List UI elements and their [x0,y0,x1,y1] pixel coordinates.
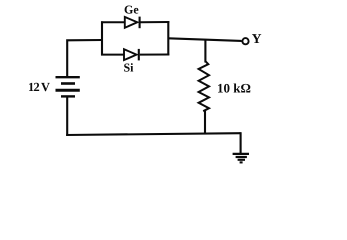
wire: diode block left vertical [101,21,103,55]
wire: resistor bottom lead to bottom rail [204,110,206,135]
wire: ground drop from bottom rail [240,132,242,153]
svg-text:Si: Si [124,61,135,75]
resistor R1 zigzag [199,61,209,111]
diode D2 (Si), anode left / cathode right [124,49,139,61]
svg-text:12 V: 12 V [28,80,50,94]
wire: output run to terminal Y [168,38,241,41]
diode D1 (Ge), anode left / cathode right [125,17,140,29]
battery V1 (12 V source) [56,77,80,96]
wire: bottom rail [66,133,240,135]
ground symbol [233,154,249,163]
wire: battery - terminal down to bottom rail [66,97,68,136]
wire: bottom branch anode side [101,54,124,56]
wire: top branch cathode side [141,21,170,23]
terminal Y (open circle) [242,38,248,44]
svg-text:Ge: Ge [124,3,139,17]
wire: top branch anode side [101,21,125,23]
svg-text:Y: Y [252,31,262,46]
wire: bottom branch cathode side [140,54,170,56]
wire: resistor top lead from output run [204,40,206,63]
wire: diode block right vertical [167,21,169,55]
wire: battery + terminal up to top-left corner and right to diode block [67,40,102,76]
svg-text:10 kΩ: 10 kΩ [217,80,251,95]
